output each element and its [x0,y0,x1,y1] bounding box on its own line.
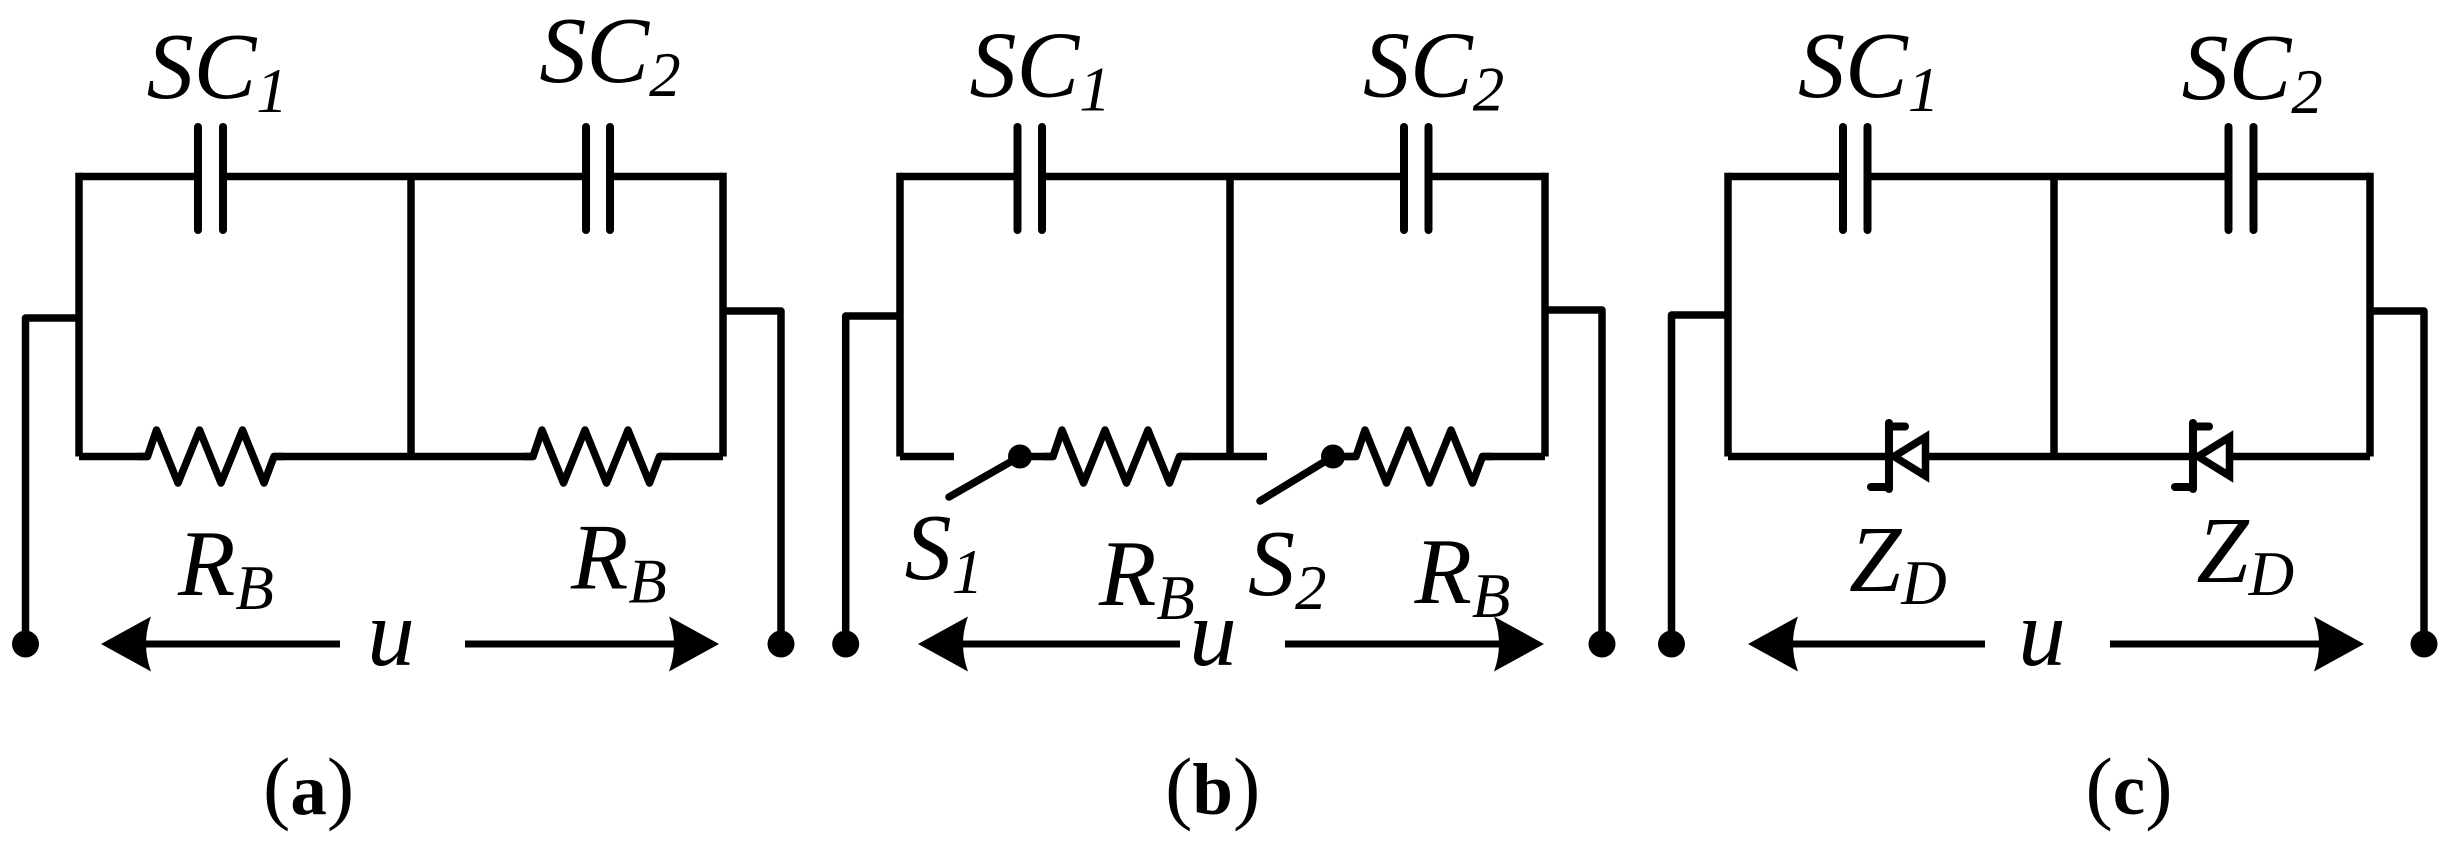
switch S2 lever [1260,457,1333,502]
node: (c) left terminal dot [1658,631,1685,658]
wire: (c) left terminal stub [1672,315,1729,644]
svg-text:(b): (b) [1165,741,1260,832]
wire: (a) right terminal stub [723,311,781,644]
wire: (c) bottom right segment [2230,453,2371,461]
wire: (a) bottom left segment [79,453,148,461]
wire: (b) left terminal stub [846,316,900,644]
capacitor SC2 (c) [2229,127,2254,230]
wire: (b) top right segment [1429,173,1546,181]
resistor RB2 (a) [523,430,670,483]
svg-text:(a): (a) [263,741,354,832]
node: (c) right terminal dot [2411,631,2438,658]
wire: (b) bottom left stub [900,453,954,461]
wire: (b) S1 to RB1 [1020,453,1053,461]
voltage arrow right (c) [2110,617,2364,672]
resistor RB2 (b) [1346,430,1493,483]
wire: (c) middle vertical [2050,177,2058,457]
wire: (b) right terminal stub [1545,310,1602,644]
svg-text:(c): (c) [2085,741,2172,832]
voltage arrow right (b) [1285,617,1544,672]
svg-text:u: u [367,580,415,686]
wire: (b) top middle segment [1042,173,1404,181]
wire: (a) top left segment [79,173,198,181]
voltage arrow left (a) [101,617,340,672]
voltage arrow left (c) [1748,617,1985,672]
zener diode ZD2 (c) [2175,423,2230,489]
node: (b) right terminal dot [1589,631,1616,658]
zener diode ZD1 (c) [1871,423,1926,489]
wire: (b) top left segment [900,173,1018,181]
node: (a) right terminal dot [768,631,795,658]
wire: (a) left terminal stub [26,318,80,644]
wire: (a) right vertical [719,173,727,457]
wire: (c) bottom left segment [1728,453,1889,461]
svg-text:u: u [1189,580,1237,686]
wire: (a) bottom right segment [660,453,724,461]
capacitor SC2 (b) [1404,127,1429,230]
wire: (a) bottom middle segment [274,453,533,461]
wire: (c) left vertical [1724,173,1732,457]
capacitor SC2 (a) [586,127,610,230]
wire: (c) right terminal stub [2370,311,2424,644]
switch S1 contact dot [1008,445,1032,469]
wire: (c) top right segment [2254,173,2371,181]
capacitor SC1 (b) [1018,127,1043,230]
wire: (c) top middle segment [1868,173,2229,181]
wire: (c) bottom middle segment [1926,453,2194,461]
wire: (b) S2 to RB2 [1333,453,1356,461]
switch S1 lever [949,457,1020,498]
wire: (b) bottom right segment [1483,453,1546,461]
wire: (b) right vertical [1541,173,1549,457]
wire: (a) middle vertical [407,177,415,457]
capacitor SC1 (c) [1843,127,1868,230]
node: (b) left terminal dot [832,631,859,658]
wire: (a) left vertical [75,173,83,457]
wire: (a) top right segment [610,173,723,181]
wire: (c) top left segment [1728,173,1843,181]
wire: (c) right vertical [2366,173,2374,457]
wire: (b) bottom middle segment [1180,453,1268,461]
resistor RB1 (a) [138,430,285,483]
switch S2 contact dot [1321,445,1345,469]
voltage arrow right (a) [465,617,719,672]
node: (a) left terminal dot [12,631,39,658]
resistor RB1 (b) [1043,430,1190,483]
capacitor SC1 (a) [198,127,223,230]
wire: (b) middle vertical [1226,177,1234,457]
voltage arrow left (b) [918,617,1180,672]
wire: (a) top middle segment [223,173,586,181]
wire: (b) left vertical [896,173,904,457]
svg-text:u: u [2018,580,2066,686]
